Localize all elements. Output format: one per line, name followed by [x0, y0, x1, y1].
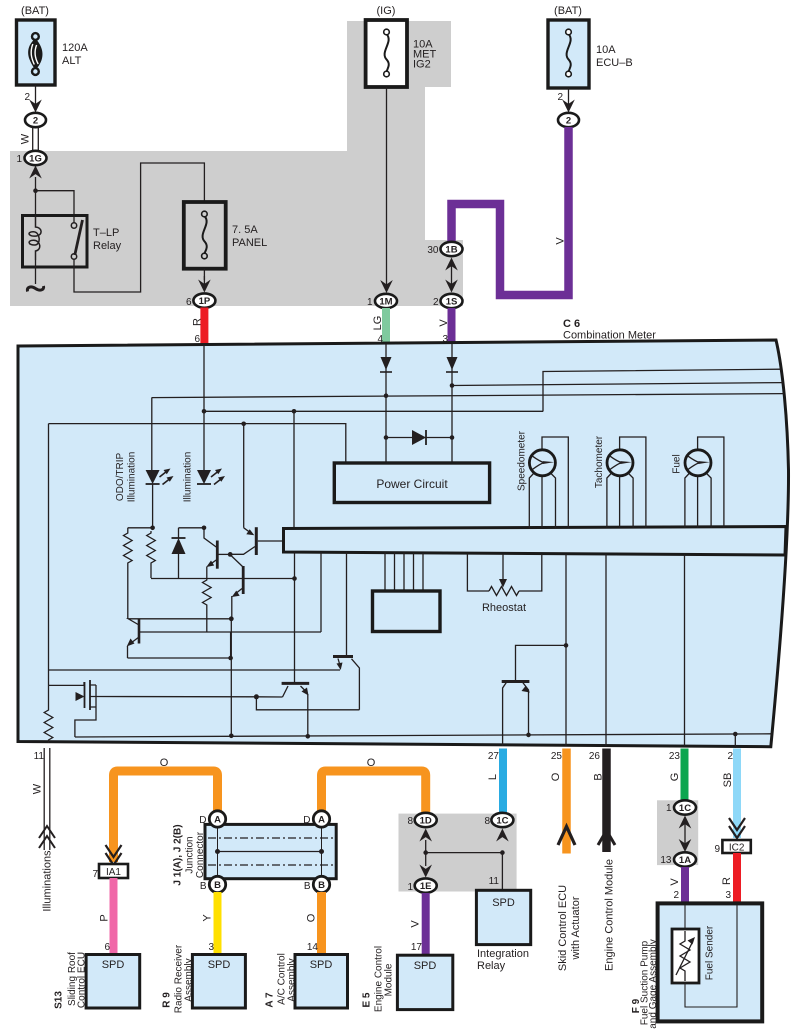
- svg-text:1C: 1C: [496, 816, 508, 827]
- node LED2 branch: [202, 526, 207, 531]
- node diode left: [384, 435, 389, 440]
- svg-text:SPD: SPD: [102, 959, 125, 971]
- svg-text:IG2: IG2: [413, 59, 431, 71]
- svg-text:23: 23: [669, 751, 681, 762]
- label E5: [362, 946, 395, 1012]
- svg-text:2: 2: [24, 92, 30, 103]
- svg-text:27: 27: [488, 751, 500, 762]
- label R9: [162, 944, 195, 1013]
- svg-text:V: V: [410, 920, 422, 928]
- connector 1B: [427, 242, 462, 256]
- wire v294 upper: [293, 411, 295, 528]
- arrow into 1P: [198, 269, 211, 293]
- svg-text:P: P: [99, 914, 111, 921]
- label A7: [265, 953, 298, 1007]
- label C6 Combination Meter: [563, 318, 656, 342]
- node pin3 rail385: [450, 383, 455, 388]
- svg-text:Junction: Junction: [185, 836, 196, 873]
- grey patch fuel 1C/1A: [657, 800, 698, 865]
- wire Q2 emitter to rail578: [206, 567, 208, 579]
- svg-text:Integration: Integration: [477, 948, 529, 960]
- svg-text:9: 9: [714, 844, 720, 855]
- svg-text:Rheostat: Rheostat: [482, 602, 526, 614]
- svg-text:ODO/TRIP: ODO/TRIP: [115, 453, 126, 502]
- wire LG to meter pin 4: [372, 308, 386, 346]
- MOSFET Q7: [49, 424, 97, 710]
- wire h resistor top: [128, 527, 153, 529]
- node pin4 rail397: [384, 393, 389, 398]
- svg-text:SPD: SPD: [208, 959, 231, 971]
- svg-text:A: A: [318, 815, 325, 826]
- wire SB sky blue pin2: [722, 749, 737, 839]
- wire R red to meter pin 6: [192, 308, 205, 347]
- svg-text:8: 8: [407, 816, 413, 827]
- svg-text:120A: 120A: [62, 42, 88, 54]
- fuse 7.5A PANEL: [184, 202, 267, 269]
- svg-text:R 9: R 9: [162, 992, 173, 1008]
- wire v684 pin23: [684, 555, 686, 747]
- svg-text:J 1(A), J 2(B): J 1(A), J 2(B): [173, 824, 184, 885]
- transistor Q2: [206, 541, 230, 569]
- rail y618 T1 collector: [128, 619, 231, 625]
- svg-text:1P: 1P: [199, 296, 211, 307]
- resistor R4: [203, 579, 212, 633]
- wire W double-line to 1G: [20, 127, 39, 151]
- connector 1C integ: [484, 813, 513, 827]
- diode D2: [412, 430, 426, 445]
- svg-text:2: 2: [727, 751, 733, 762]
- node rail423 x225: [241, 422, 246, 427]
- double arrow 1B to 1S: [445, 258, 458, 293]
- svg-text:Module: Module: [384, 963, 395, 996]
- chevron illumination wire: [39, 826, 55, 848]
- svg-text:2: 2: [557, 92, 563, 103]
- svg-text:1G: 1G: [29, 154, 42, 165]
- arrow into 1G: [29, 166, 42, 216]
- wire O orange loop2: [322, 757, 426, 812]
- svg-text:1D: 1D: [420, 816, 432, 827]
- svg-text:with Actuator: with Actuator: [570, 896, 582, 960]
- wire LED2 cathode to Q2 collector: [204, 528, 217, 548]
- fuel gauge: [672, 437, 724, 528]
- svg-text:1: 1: [367, 297, 373, 308]
- wire O orange loop to junction A1: [114, 757, 218, 862]
- svg-text:2: 2: [33, 116, 38, 127]
- node Q2 base junction: [228, 552, 233, 557]
- SPD box A7: [295, 955, 348, 1009]
- wire inside fuel box left: [684, 905, 686, 929]
- svg-text:2: 2: [433, 297, 439, 308]
- fuel sender resistor: [672, 925, 716, 983]
- fuse 10A MET IG2: [366, 5, 437, 87]
- transistor Q4: [230, 527, 283, 555]
- node LED1: [150, 526, 155, 531]
- wire 1C to integration relay: [489, 853, 503, 890]
- transistor T3: [282, 683, 310, 736]
- chevron into IC2: [729, 818, 745, 838]
- svg-text:ECU–B: ECU–B: [596, 57, 633, 69]
- rail y654: [128, 657, 231, 659]
- node rail578 v294: [292, 576, 297, 581]
- diode D1: [172, 528, 186, 579]
- svg-text:1M: 1M: [379, 297, 392, 308]
- rail y411: [204, 410, 543, 412]
- svg-text:25: 25: [551, 751, 563, 762]
- svg-text:1: 1: [16, 154, 22, 165]
- fuel suction pump box: [658, 903, 763, 1021]
- wire V purple fuel: [669, 867, 685, 904]
- connector 1E: [407, 878, 436, 893]
- junction arrow pin3: [446, 357, 458, 372]
- wire pin3 vertical: [451, 344, 453, 463]
- svg-text:C 6: C 6: [563, 318, 580, 330]
- rail y371: [543, 369, 781, 411]
- wire B black ECM: [589, 749, 615, 853]
- rail y423: [49, 424, 346, 463]
- svg-text:8: 8: [484, 816, 490, 827]
- diode D2 line: [386, 437, 452, 439]
- rail y397: [152, 394, 784, 398]
- wire ALT fuse to connector 2: [24, 85, 41, 113]
- svg-text:PANEL: PANEL: [232, 237, 267, 249]
- svg-text:B: B: [214, 880, 221, 891]
- wire R red fuel: [721, 853, 737, 904]
- svg-text:Relay: Relay: [477, 960, 506, 972]
- wire v294: [294, 552, 296, 683]
- svg-text:30: 30: [427, 245, 439, 256]
- svg-text:W: W: [20, 133, 32, 144]
- svg-text:10A: 10A: [596, 44, 616, 56]
- svg-text:17: 17: [411, 942, 423, 953]
- connector 1A fuel: [660, 852, 696, 866]
- svg-text:14: 14: [307, 942, 319, 953]
- label junction connector: [173, 824, 207, 885]
- plate bus box: [284, 527, 787, 556]
- svg-text:2: 2: [566, 116, 571, 127]
- wire O orange B2 down: [306, 892, 322, 955]
- wire Q4 emitter from rail423: [243, 424, 245, 528]
- connector A2: [303, 811, 329, 827]
- SPD box S13: [86, 955, 140, 1009]
- bottom rail y735: [75, 734, 772, 737]
- arrow down into 1E: [419, 853, 432, 878]
- svg-text:1B: 1B: [445, 245, 457, 256]
- svg-text:Illumination: Illumination: [183, 452, 194, 503]
- connector 1G: [16, 151, 46, 165]
- transistor T1: [127, 619, 139, 659]
- svg-text:R: R: [721, 877, 733, 885]
- svg-text:D: D: [303, 815, 310, 826]
- wire L blue pin27: [487, 749, 503, 814]
- speedometer gauge: [517, 430, 569, 528]
- svg-text:Relay: Relay: [93, 240, 122, 252]
- wire mosfet source down: [75, 707, 96, 737]
- wire v228: [230, 632, 232, 658]
- svg-text:Fuel Sender: Fuel Sender: [705, 925, 716, 980]
- svg-text:A 7: A 7: [265, 992, 276, 1008]
- wire ECU-B fuse to connector 2: [557, 88, 574, 113]
- wire v231 to bottom rail: [230, 619, 232, 736]
- svg-text:Control ECU: Control ECU: [77, 952, 88, 1008]
- svg-text:1A: 1A: [679, 855, 691, 866]
- wire relay to PANEL fuse: [74, 163, 204, 292]
- svg-text:Assembly: Assembly: [287, 958, 298, 1001]
- wire v566 pin25: [565, 554, 567, 746]
- resistor R3 illumination: [44, 685, 53, 743]
- node pin6 rail411: [202, 409, 207, 414]
- rail y668: [49, 669, 341, 671]
- svg-text:IC2: IC2: [729, 843, 745, 854]
- svg-text:3: 3: [725, 890, 731, 901]
- svg-text:Skid Control ECU: Skid Control ECU: [557, 885, 569, 971]
- svg-text:1: 1: [666, 803, 672, 814]
- connector 1M: [367, 294, 397, 308]
- fuse 10A ECU-B: [548, 5, 633, 88]
- wire V violet ECU-B to 1B: [452, 127, 569, 295]
- tachometer gauge: [594, 435, 646, 528]
- rheostat resistor: [489, 587, 519, 596]
- relay T-LP: [23, 216, 122, 268]
- svg-text:O: O: [306, 913, 318, 922]
- svg-text:13: 13: [660, 855, 672, 866]
- wire V to meter pin 3: [438, 308, 452, 346]
- node T4 collector to v566: [564, 643, 569, 648]
- svg-text:Illuminations: Illuminations: [42, 850, 54, 912]
- fusible link 120A ALT: [17, 5, 89, 85]
- wire P pink: [99, 878, 114, 955]
- transistor T4: [502, 645, 566, 746]
- svg-text:V: V: [669, 878, 681, 886]
- svg-text:26: 26: [589, 751, 601, 762]
- arrow up into 1C integ: [496, 829, 509, 842]
- svg-text:1C: 1C: [679, 803, 691, 814]
- connector A1: [199, 811, 225, 827]
- node bottom rail x735: [733, 732, 738, 737]
- svg-text:LG: LG: [372, 316, 384, 331]
- integration relay box: [476, 890, 530, 972]
- wire fuel sender bottom loop: [685, 905, 737, 1007]
- svg-text:(BAT): (BAT): [554, 5, 582, 17]
- svg-text:7: 7: [92, 869, 98, 880]
- wire G green pin23: [669, 749, 685, 801]
- wire v600 pin26: [605, 554, 607, 746]
- svg-text:B: B: [593, 773, 605, 780]
- svg-text:Connector: Connector: [195, 831, 206, 878]
- node diode right: [450, 435, 455, 440]
- svg-text:7. 5A: 7. 5A: [232, 224, 258, 236]
- svg-text:L: L: [487, 774, 499, 780]
- svg-text:Engine Control Module: Engine Control Module: [604, 859, 616, 971]
- connector 2 (ECU-B): [558, 113, 579, 127]
- svg-text:V: V: [438, 319, 450, 327]
- svg-text:SB: SB: [722, 773, 734, 788]
- svg-text:(IG): (IG): [377, 5, 396, 17]
- wire v346: [346, 552, 348, 655]
- rail y385: [452, 383, 783, 386]
- wire Y yellow: [202, 892, 218, 955]
- wire V purple 1E to ECM SPD: [410, 893, 426, 955]
- connector 1C fuel: [666, 800, 696, 814]
- wire pin6 to LED2: [203, 345, 205, 470]
- connector IA1: [92, 864, 128, 880]
- node T3 emitter bottom rail: [306, 734, 311, 739]
- wire T2 emitter leg: [352, 659, 360, 710]
- LED1 ODO/TRIP illumination: [115, 398, 174, 503]
- svg-text:11: 11: [489, 876, 500, 887]
- svg-text:3: 3: [208, 942, 214, 953]
- connector 1P: [186, 293, 215, 308]
- svg-text:B: B: [304, 881, 311, 892]
- svg-text:S13: S13: [54, 991, 65, 1009]
- svg-text:1S: 1S: [446, 297, 458, 308]
- node rail654 end: [228, 656, 233, 661]
- chevron into IA1: [106, 845, 122, 865]
- svg-text:G: G: [669, 773, 681, 782]
- svg-text:T–LP: T–LP: [93, 227, 119, 239]
- svg-text:ALT: ALT: [62, 55, 82, 67]
- svg-text:6: 6: [186, 297, 192, 308]
- five wires into hybrid IC: [385, 553, 423, 592]
- resistor R2: [147, 531, 156, 578]
- connector 1D: [407, 813, 436, 827]
- node rail411 x294: [292, 409, 297, 414]
- svg-text:(BAT): (BAT): [21, 5, 49, 17]
- wire LED2 to diode branch: [179, 527, 205, 529]
- resistor R1: [124, 528, 133, 619]
- relay coil ground squiggle: [27, 260, 43, 292]
- wire O orange skid control: [550, 749, 575, 854]
- svg-text:1: 1: [407, 882, 413, 893]
- connector IC2: [714, 840, 750, 855]
- wire pin2 stub: [734, 734, 736, 748]
- svg-text:O: O: [550, 772, 562, 781]
- wire W illumination double-line: [32, 748, 50, 850]
- svg-text:B: B: [200, 881, 207, 892]
- svg-text:Fuel: Fuel: [672, 454, 683, 473]
- grey harness region top-left: [10, 21, 463, 306]
- crosslink 1D-1C: [426, 852, 503, 854]
- arrow up into 1D: [419, 829, 432, 853]
- connector B1: [200, 876, 226, 892]
- svg-text:R: R: [192, 318, 204, 326]
- svg-text:and Gage Assembly: and Gage Assembly: [648, 939, 659, 1029]
- svg-text:W: W: [32, 783, 44, 794]
- svg-text:Y: Y: [202, 914, 214, 922]
- transistor T2: [333, 657, 353, 671]
- wire v256 to rail 709.5: [256, 697, 359, 710]
- wire v321: [320, 552, 322, 632]
- svg-text:A: A: [214, 815, 221, 826]
- wire LED1 cathode: [152, 484, 154, 528]
- node T4 emitter rail: [526, 733, 531, 738]
- rheostat arrow: [499, 554, 507, 588]
- svg-text:IA1: IA1: [106, 867, 121, 878]
- label S13: [54, 952, 88, 1009]
- svg-text:Assembly: Assembly: [184, 958, 195, 1001]
- wire pin4 vertical: [385, 344, 387, 463]
- svg-text:B: B: [318, 880, 325, 891]
- node v231 bottom rail: [229, 734, 234, 739]
- svg-text:11: 11: [34, 751, 45, 762]
- svg-text:6: 6: [104, 942, 110, 953]
- svg-text:2: 2: [673, 890, 679, 901]
- rheostat bracket: [467, 554, 541, 592]
- label F9 fuel pump: [631, 939, 659, 1029]
- svg-text:SPD: SPD: [310, 959, 333, 971]
- svg-text:O: O: [160, 757, 169, 769]
- connector B2: [304, 876, 330, 892]
- double arrow 1C-1A fuel: [679, 816, 692, 853]
- svg-text:Power Circuit: Power Circuit: [376, 477, 448, 491]
- junction arrow pin4: [380, 357, 392, 372]
- rail y578: [151, 578, 295, 580]
- svg-text:Illumination: Illumination: [127, 452, 138, 503]
- node Q3 emitter rail618: [229, 616, 234, 621]
- SPD box E5: [397, 955, 452, 1009]
- wire mosfet drain rail: [96, 696, 283, 699]
- node junction below 1G: [33, 188, 38, 193]
- svg-text:Speedometer: Speedometer: [517, 430, 528, 491]
- wire T1 base rail629: [139, 631, 321, 633]
- transistor Q3: [231, 556, 243, 619]
- svg-text:SPD: SPD: [492, 897, 515, 909]
- hybrid IC box: [373, 591, 441, 632]
- junction connector J1/J2 box: [205, 824, 336, 878]
- svg-text:SPD: SPD: [414, 960, 437, 972]
- node crosslink 1C: [500, 850, 505, 855]
- svg-text:O: O: [367, 757, 376, 769]
- LED2 illumination: [183, 452, 226, 503]
- svg-text:V: V: [555, 237, 567, 245]
- svg-text:1E: 1E: [420, 881, 432, 892]
- combination meter C6 body: [18, 340, 789, 747]
- connector 1S: [433, 294, 463, 308]
- label skid control ecu: [557, 885, 582, 971]
- svg-text:Tachometer: Tachometer: [594, 435, 605, 488]
- svg-text:E 5: E 5: [362, 992, 373, 1007]
- svg-text:D: D: [199, 815, 206, 826]
- connector 2 (ALT): [25, 113, 46, 127]
- wire to relay switch contact: [36, 191, 75, 224]
- wire IG fuse to 1M: [380, 87, 393, 293]
- node 1D1E mid: [423, 850, 428, 855]
- grey patch 1D/1E: [399, 814, 517, 892]
- SPD box R9: [192, 955, 245, 1009]
- power circuit box: [334, 463, 489, 503]
- node rail697 x256: [254, 694, 259, 699]
